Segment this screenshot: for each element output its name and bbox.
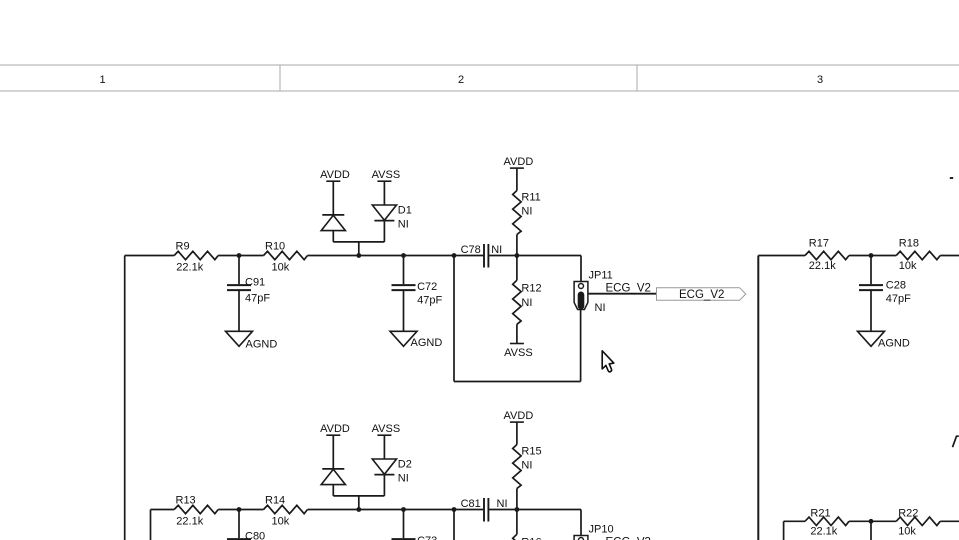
svg-text:AGND: AGND bbox=[411, 337, 443, 349]
svg-text:AVSS: AVSS bbox=[504, 347, 533, 359]
svg-text:10k: 10k bbox=[899, 260, 917, 272]
svg-text:C28: C28 bbox=[886, 279, 906, 291]
svg-text:D1: D1 bbox=[398, 205, 412, 217]
svg-text:10k: 10k bbox=[272, 261, 290, 273]
svg-text:NI: NI bbox=[595, 302, 606, 314]
svg-text:22.1k: 22.1k bbox=[810, 526, 837, 538]
svg-text:47pF: 47pF bbox=[417, 295, 442, 307]
svg-text:AVDD: AVDD bbox=[504, 410, 534, 422]
svg-text:AVDD: AVDD bbox=[320, 169, 350, 181]
svg-text:R22: R22 bbox=[898, 508, 918, 520]
svg-text:22.1k: 22.1k bbox=[176, 261, 203, 273]
svg-text:C91: C91 bbox=[245, 277, 265, 289]
svg-text:C78: C78 bbox=[461, 244, 481, 256]
svg-text:R16: R16 bbox=[521, 537, 541, 540]
svg-text:1: 1 bbox=[99, 74, 105, 86]
svg-text:10k: 10k bbox=[272, 515, 290, 527]
svg-text:NI: NI bbox=[521, 459, 532, 471]
svg-text:AVSS: AVSS bbox=[372, 423, 401, 435]
svg-text:NI: NI bbox=[521, 297, 532, 309]
svg-text:2: 2 bbox=[458, 74, 464, 86]
svg-text:R9: R9 bbox=[176, 241, 190, 253]
svg-text:AVDD: AVDD bbox=[504, 156, 534, 168]
svg-text:3: 3 bbox=[817, 74, 823, 86]
svg-text:R11: R11 bbox=[521, 191, 540, 203]
svg-text:ECG_V2: ECG_V2 bbox=[606, 283, 651, 295]
svg-text:JP10: JP10 bbox=[589, 523, 614, 535]
svg-text:C81: C81 bbox=[461, 498, 481, 510]
svg-text:C72: C72 bbox=[417, 281, 437, 293]
svg-text:R15: R15 bbox=[521, 445, 541, 457]
svg-text:C73: C73 bbox=[417, 535, 437, 540]
svg-text:47pF: 47pF bbox=[245, 293, 270, 305]
svg-text:R12: R12 bbox=[521, 283, 541, 295]
svg-text:NI: NI bbox=[521, 205, 532, 217]
svg-text:AGND: AGND bbox=[246, 339, 278, 351]
svg-text:NI: NI bbox=[497, 498, 508, 510]
svg-text:R13: R13 bbox=[176, 495, 196, 507]
svg-text:22.1k: 22.1k bbox=[809, 260, 836, 272]
svg-text:R14: R14 bbox=[265, 495, 285, 507]
svg-text:10k: 10k bbox=[898, 526, 916, 538]
svg-text:R18: R18 bbox=[899, 238, 919, 250]
svg-text:C80: C80 bbox=[245, 531, 265, 540]
svg-text:AVSS: AVSS bbox=[372, 169, 401, 181]
svg-text:ECG_V2: ECG_V2 bbox=[679, 289, 724, 301]
svg-text:JP11: JP11 bbox=[589, 269, 613, 281]
svg-text:D2: D2 bbox=[398, 459, 412, 471]
svg-text:NI: NI bbox=[398, 472, 409, 484]
svg-text:AVDD: AVDD bbox=[320, 423, 350, 435]
svg-text:AGND: AGND bbox=[878, 338, 910, 350]
svg-text:R10: R10 bbox=[265, 241, 285, 253]
svg-text:47pF: 47pF bbox=[886, 293, 911, 305]
svg-text:NI: NI bbox=[398, 218, 409, 230]
svg-text:NI: NI bbox=[491, 244, 502, 256]
svg-text:22.1k: 22.1k bbox=[176, 515, 203, 527]
svg-text:R17: R17 bbox=[809, 238, 829, 250]
svg-text:R21: R21 bbox=[810, 508, 830, 520]
